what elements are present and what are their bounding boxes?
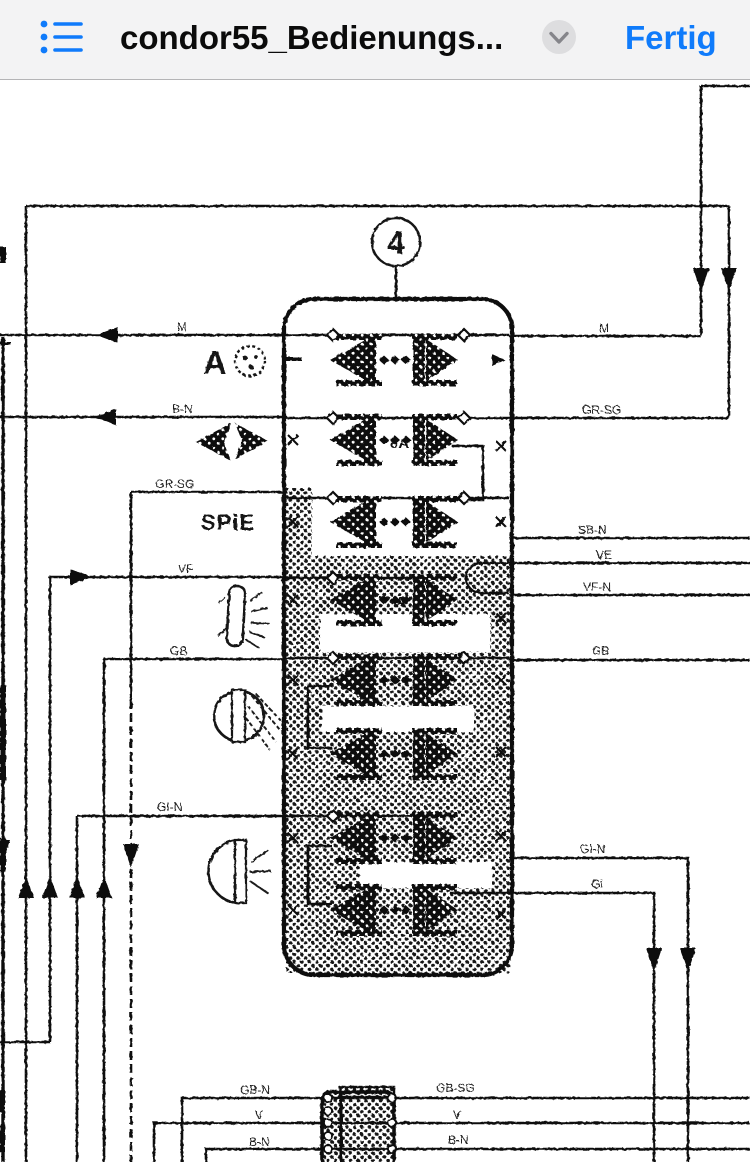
pin mark row7 left [288, 833, 298, 843]
wire outer loop top y=206 [26, 205, 729, 208]
wire rows5-6 left bracket [308, 686, 332, 748]
svg-text:GB: GB [170, 644, 187, 658]
wire GR-SG left horizontal [131, 491, 287, 494]
wire GI-N right [509, 858, 688, 1162]
title [120, 19, 503, 57]
node circle 4 [372, 218, 420, 266]
wire GB vertical x=104 [103, 659, 106, 1162]
pin stub row1 left [286, 357, 302, 361]
svg-text:VF: VF [178, 562, 193, 576]
svg-text:GR-SG: GR-SG [155, 477, 194, 491]
pin pair row8 [330, 884, 458, 936]
pin mark row4 right [496, 613, 506, 623]
svg-text:VE: VE [596, 548, 612, 562]
svg-text:4: 4 [387, 225, 405, 261]
lamp L3 headlight [209, 840, 271, 903]
pin circles bottom connector [324, 1094, 396, 1153]
pin pair row4 [330, 574, 458, 626]
wire M left [0, 334, 287, 337]
wire bottom V row [154, 1123, 750, 1162]
wire VF vertical x=50 [49, 577, 52, 1042]
svg-text:GI-N: GI-N [157, 800, 182, 814]
arrowhead down x=729 [721, 268, 737, 292]
chevron button [539, 17, 579, 57]
pin mark row6 right [496, 747, 506, 757]
wire M right [509, 335, 701, 338]
pin pair row1 [330, 334, 458, 386]
pin mark row2 right [496, 441, 506, 451]
wire row2-row3 right link [452, 446, 483, 500]
svg-text:VF-N: VF-N [583, 580, 611, 594]
pin pair row3 [330, 496, 458, 548]
wire in-block row7 [287, 815, 430, 818]
arrowhead down x=701 [693, 268, 709, 292]
arrowhead down x=688 [680, 948, 696, 972]
horn A [203, 344, 265, 381]
wire vertical M riser x=701 [700, 86, 703, 336]
wire vertical GR-SG riser x=729 [728, 206, 731, 418]
pin mark row3 right [496, 517, 506, 527]
arrowhead M left [96, 327, 118, 343]
arrowhead up x=26 [18, 876, 34, 898]
pin mark row6 left [288, 749, 298, 759]
svg-text:SB-N: SB-N [578, 523, 607, 537]
left edge ink blobs [0, 247, 11, 1152]
pin mark row7 right [496, 831, 506, 841]
arrowhead VF right [70, 569, 92, 585]
wire VE right [509, 562, 750, 565]
pin pair row2 [330, 414, 458, 466]
lamp L2 [214, 690, 284, 750]
list icon [30, 7, 90, 67]
svg-text:V: V [255, 1108, 263, 1122]
svg-text:A: A [203, 344, 227, 381]
wire SB-N right [509, 537, 750, 540]
block body fill [286, 556, 510, 973]
junction row5 left [327, 652, 339, 664]
svg-text:GR-SG: GR-SG [582, 403, 621, 417]
svg-text:Gi: Gi [591, 877, 603, 891]
wire row4 VE hook [466, 563, 509, 593]
junction row1 right [458, 329, 470, 341]
svg-text:GB-N: GB-N [240, 1083, 270, 1097]
svg-text:GI-N: GI-N [580, 842, 605, 856]
wire top-right corner horizontal [701, 85, 750, 88]
wire VF-N right [509, 594, 750, 597]
junction row2 right [458, 412, 470, 424]
svg-text:M: M [599, 321, 609, 335]
wire in-block row8 right stub [450, 892, 509, 895]
svg-text:B-N: B-N [172, 402, 193, 416]
junction row7 left [327, 810, 339, 822]
svg-text:B-N: B-N [249, 1135, 270, 1149]
wire outer loop left x=26 [25, 206, 28, 1162]
wire GB right [509, 659, 750, 662]
toolbar [0, 0, 750, 80]
junction row3 right [458, 492, 470, 504]
done button [625, 19, 717, 57]
wire in-block row2 [287, 417, 509, 420]
pin pair row6 [330, 728, 458, 780]
pin mark row8 right [496, 909, 506, 919]
wire in-block row3 [287, 497, 509, 500]
bottom connector block fill [322, 1087, 394, 1162]
wire in-block row4 [287, 577, 455, 580]
wire bottom-left link y=1042 [0, 1041, 50, 1044]
junction row5 right [458, 652, 470, 664]
wire circle4 stem [395, 266, 398, 299]
svg-text:V: V [453, 1108, 461, 1122]
pin mark row5 right [496, 675, 506, 685]
svg-text:B-N: B-N [448, 1133, 469, 1147]
svg-text:8A: 8A [390, 435, 409, 452]
wire dashed lower x=131 [130, 700, 133, 1162]
junction row1 left [327, 329, 339, 341]
wire GI right [509, 893, 654, 1162]
pin mark row5 left [288, 675, 298, 685]
arrowhead up x=50 [42, 876, 58, 898]
svg-text:GB-SG: GB-SG [436, 1081, 475, 1095]
junction row2 left [327, 412, 339, 424]
arrowhead down x=3 [0, 840, 10, 862]
wire VF left [50, 576, 287, 579]
svg-text:M: M [177, 320, 187, 334]
pin mark row8 left [288, 905, 298, 915]
wire GI-N vertical x=77 [76, 816, 79, 1162]
wire in-block row5 [287, 657, 509, 660]
wire bottom B-N row [206, 1149, 750, 1162]
arrowhead down x=131 [123, 844, 139, 868]
wire left edge vertical x=3 [1, 337, 4, 1162]
wire GI-N left [77, 815, 287, 818]
pin pair row5 [330, 654, 458, 706]
pin mark row4 left [288, 595, 298, 605]
wire rows7-8 left bracket [308, 846, 332, 904]
pin pair row7 [330, 812, 458, 864]
wire GR-SG right [509, 417, 729, 420]
junction row4 left [327, 572, 339, 584]
turn indicator arrows [196, 423, 268, 461]
arrowhead B-N left [94, 409, 116, 425]
wire GB left [104, 658, 287, 661]
arrowhead up x=104 [96, 876, 112, 898]
svg-text:GB: GB [592, 644, 609, 658]
arrowhead up x=77 [69, 876, 85, 898]
svg-text:A: A [396, 594, 406, 610]
junction row3 left [327, 492, 339, 504]
pin stub row1 right [492, 354, 505, 366]
lamp L1 [216, 585, 271, 649]
wire bottom GB-N row [182, 1098, 750, 1162]
wire GR-SG left vertical x=131 [130, 492, 133, 700]
pin mark row3 left [288, 517, 298, 527]
svg-text:SPiE: SPiE [201, 510, 255, 535]
wire in-block row1 [287, 334, 509, 337]
pin mark row2 left [288, 435, 298, 445]
arrowhead down x=654 [646, 948, 662, 972]
wire B-N left [0, 416, 287, 419]
